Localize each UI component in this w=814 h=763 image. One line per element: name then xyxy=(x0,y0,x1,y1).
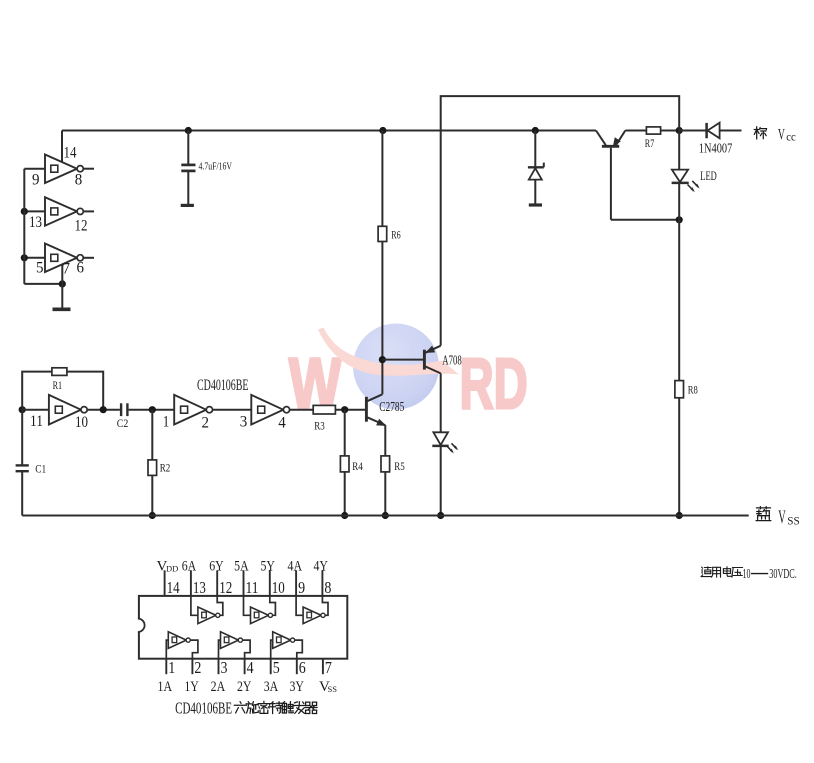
svg-text:6: 6 xyxy=(77,260,85,277)
wire U1C input xyxy=(24,257,45,259)
resistor R6 xyxy=(378,226,387,241)
svg-text:4.7uF/16V: 4.7uF/16V xyxy=(199,161,233,172)
label brown Vcc xyxy=(754,129,759,131)
IC inverter top row xyxy=(191,596,198,615)
wire C2 to node xyxy=(129,409,175,411)
svg-text:11: 11 xyxy=(30,413,43,430)
wire bus to pin7 xyxy=(24,283,62,285)
inverter U1E pins 1-2 xyxy=(174,395,206,425)
svg-text:13: 13 xyxy=(29,214,42,231)
node junction input 13 xyxy=(21,208,28,215)
node junction pin7 xyxy=(59,280,66,287)
svg-text:3A: 3A xyxy=(264,679,279,695)
inverter U1B pins 13-12 xyxy=(45,197,77,226)
wire Q2 emitter to R5 xyxy=(384,425,386,456)
svg-text:10: 10 xyxy=(743,567,751,582)
node junction R5 rail xyxy=(382,512,389,519)
node A input xyxy=(19,406,26,413)
wire R3 to C2785 base xyxy=(335,409,365,411)
wire U1B input xyxy=(24,210,45,212)
svg-text:12: 12 xyxy=(75,218,88,235)
svg-text:R1: R1 xyxy=(53,378,63,392)
wire R1 to output node xyxy=(67,372,103,410)
wire rail to zener xyxy=(534,131,536,168)
svg-text:5: 5 xyxy=(36,260,44,277)
node junction R8 rail xyxy=(676,512,683,519)
inverter U1A pins 9-8 xyxy=(45,155,77,184)
svg-text:6: 6 xyxy=(299,658,306,677)
wire pin 7 to ground xyxy=(61,264,63,308)
wire U1C output stub xyxy=(83,257,94,259)
svg-text:R2: R2 xyxy=(160,460,171,474)
node junction R4 rail xyxy=(341,512,348,519)
svg-text:7: 7 xyxy=(63,261,71,278)
svg-text:3: 3 xyxy=(221,658,228,677)
inverter U1D pins 11-10 xyxy=(49,395,81,425)
node junction zener tap xyxy=(532,127,539,134)
resistor R1 xyxy=(52,368,67,376)
wire U1B output stub xyxy=(83,210,94,212)
IC inverter top row xyxy=(296,596,303,615)
wire rail drop to pin 14 xyxy=(61,131,63,163)
transistor Q1 PNP xyxy=(596,131,606,146)
IC notch xyxy=(137,619,140,632)
wire Q1 base down xyxy=(610,148,612,220)
svg-text:8: 8 xyxy=(324,578,331,597)
svg-text:RD: RD xyxy=(460,345,528,424)
IC body CD40106BE xyxy=(139,596,347,659)
svg-text:30VDC.: 30VDC. xyxy=(769,567,797,582)
capacitor C1 xyxy=(21,410,23,465)
resistor R2 xyxy=(148,460,157,476)
wire R6 to node B xyxy=(381,242,383,360)
svg-text:R8: R8 xyxy=(688,383,698,397)
wire N1 to LED xyxy=(678,131,680,170)
LED D2 xyxy=(672,170,688,183)
svg-text:5Y: 5Y xyxy=(260,559,275,575)
IC bottom pin stubs xyxy=(165,659,167,675)
wire Q1 base to node xyxy=(611,219,679,221)
ground GND3 xyxy=(529,203,542,206)
label operating voltage note xyxy=(704,567,711,569)
diode D1 1N4007 xyxy=(705,123,708,138)
node junction LED rail xyxy=(437,512,444,519)
node junction cap C4 tap xyxy=(185,127,192,134)
IC top pin stubs xyxy=(164,570,166,596)
svg-text:9: 9 xyxy=(32,172,40,189)
IC inverter bottom row xyxy=(219,640,221,659)
svg-text:V: V xyxy=(778,126,785,143)
svg-text:2Y: 2Y xyxy=(237,679,252,695)
node junction R2 rail xyxy=(149,512,156,519)
wire node A to inverter xyxy=(22,409,49,411)
capacitor C4 4.7uF/16V xyxy=(187,131,189,165)
resistor R5 xyxy=(381,456,390,472)
svg-text:4: 4 xyxy=(278,414,286,431)
svg-text:4Y: 4Y xyxy=(313,559,328,575)
wire LED to rail xyxy=(440,447,442,516)
svg-text:6A: 6A xyxy=(182,559,197,575)
wire R8 to Vss rail xyxy=(678,398,680,516)
svg-text:CD40106BE: CD40106BE xyxy=(197,377,249,394)
wire R4 to rail xyxy=(344,472,346,516)
svg-text:A708: A708 xyxy=(442,353,462,368)
svg-text:4: 4 xyxy=(247,658,254,677)
wire N1 to diode xyxy=(679,130,706,132)
svg-text:9: 9 xyxy=(298,578,305,597)
transistor Q3 A708 PNP xyxy=(423,350,426,370)
svg-text:13: 13 xyxy=(193,578,206,597)
svg-text:1Y: 1Y xyxy=(184,679,199,695)
LED D3 xyxy=(433,432,448,445)
wire node to R2 xyxy=(151,410,153,460)
zener diode ZD1 xyxy=(528,166,544,168)
svg-text:14: 14 xyxy=(64,145,77,162)
IC inverter top row xyxy=(244,596,251,615)
node junction LED cathode xyxy=(676,216,683,223)
svg-text:5A: 5A xyxy=(234,559,249,575)
IC inverter bottom row xyxy=(166,640,168,659)
svg-text:7: 7 xyxy=(325,658,332,677)
wire feedback loop R1 xyxy=(22,372,52,410)
svg-text:14: 14 xyxy=(167,578,180,597)
svg-text:C1: C1 xyxy=(35,462,46,476)
wire Q2 collector to node B xyxy=(381,360,383,395)
watermark WORD logo xyxy=(289,324,528,425)
svg-text:2: 2 xyxy=(194,658,201,677)
wire U1E output xyxy=(213,409,252,411)
svg-text:cc: cc xyxy=(786,131,796,143)
svg-text:10: 10 xyxy=(75,414,88,431)
svg-text:5: 5 xyxy=(273,658,280,677)
ground GND2 xyxy=(181,204,194,207)
svg-text:3Y: 3Y xyxy=(289,679,304,695)
IC inverter bottom row xyxy=(271,640,273,659)
ground GND1 xyxy=(53,307,71,311)
capacitor C2 xyxy=(120,403,122,416)
wire Q3 collector to LED xyxy=(440,373,442,432)
node junction R4 tap xyxy=(341,406,348,413)
svg-text:R4: R4 xyxy=(352,459,363,473)
inverter U1F pins 3-4 xyxy=(251,395,283,425)
wire R2 to rail xyxy=(151,475,153,515)
svg-text:1A: 1A xyxy=(158,679,173,695)
node junction input 5 xyxy=(21,254,28,261)
svg-text:1N4007: 1N4007 xyxy=(699,141,733,156)
wire Vss rail xyxy=(22,515,749,517)
svg-text:R3: R3 xyxy=(314,419,325,433)
svg-text:SS: SS xyxy=(328,684,338,694)
svg-text:2A: 2A xyxy=(211,679,226,695)
wire U1A input xyxy=(24,168,45,170)
wire rail to R6 xyxy=(381,131,383,227)
svg-text:C2785: C2785 xyxy=(379,400,404,415)
resistor R4 xyxy=(340,456,349,472)
wire U1A output stub xyxy=(83,168,94,170)
svg-text:C2: C2 xyxy=(117,416,129,430)
svg-text:3: 3 xyxy=(240,413,248,430)
inverter U1C pins 5-6 xyxy=(45,244,77,273)
wire Q1 emitter to R7 xyxy=(625,130,646,132)
wire input bus xyxy=(23,169,25,284)
node junction R6 tap xyxy=(379,127,386,134)
svg-text:R5: R5 xyxy=(394,459,405,473)
wire node B to A708 base xyxy=(382,359,423,361)
svg-text:10: 10 xyxy=(272,578,285,597)
svg-text:8: 8 xyxy=(75,172,83,189)
wire U1D output xyxy=(87,409,120,411)
wire node to R4 xyxy=(344,410,346,456)
svg-text:SS: SS xyxy=(787,514,800,528)
svg-text:11: 11 xyxy=(246,578,259,597)
wire R5 to rail xyxy=(384,472,386,516)
svg-text:DD: DD xyxy=(166,564,178,574)
wire Vcc rail xyxy=(62,130,596,132)
svg-text:2: 2 xyxy=(202,414,210,431)
svg-text:1: 1 xyxy=(168,658,175,677)
resistor R8 xyxy=(675,381,684,398)
node junction N1 xyxy=(676,127,683,134)
resistor R3 xyxy=(313,405,335,414)
svg-text:12: 12 xyxy=(219,578,232,597)
svg-text:R7: R7 xyxy=(645,136,655,150)
wire node to R8 xyxy=(678,220,680,381)
label blue Vss xyxy=(759,507,761,509)
svg-text:1: 1 xyxy=(163,413,170,430)
svg-text:R6: R6 xyxy=(391,228,401,242)
wire N1 up and over to A708 emitter xyxy=(441,96,680,346)
node junction B xyxy=(379,356,386,363)
svg-text:LED: LED xyxy=(700,168,717,183)
svg-text:6Y: 6Y xyxy=(209,559,224,575)
svg-text:V: V xyxy=(778,508,786,528)
wire U1F output to R3 xyxy=(290,409,314,411)
node junction output 10 xyxy=(100,406,107,413)
resistor R7 xyxy=(646,127,660,134)
svg-text:4A: 4A xyxy=(288,559,303,575)
node junction R2 tap xyxy=(149,406,156,413)
transistor Q2 C2785 NPN xyxy=(365,397,368,422)
svg-text:CD40106BE: CD40106BE xyxy=(175,698,232,717)
wire R7 to node N1 xyxy=(661,130,680,132)
